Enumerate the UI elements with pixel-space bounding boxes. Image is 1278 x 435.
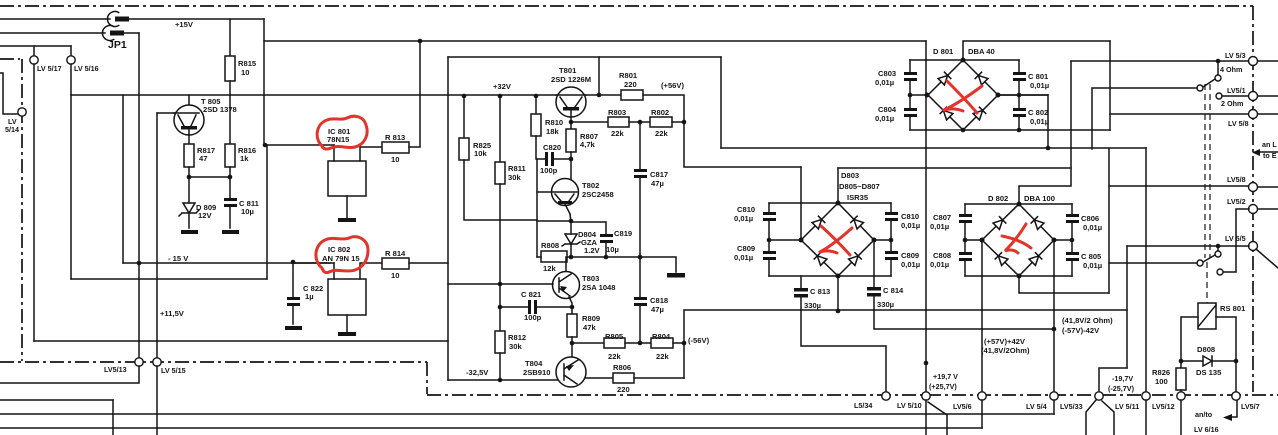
wire right mid to right corner <box>1054 239 1072 241</box>
junction D808 right <box>1234 359 1239 364</box>
wire R814 out to amp box edge <box>409 262 448 264</box>
svg-text:RS 801: RS 801 <box>1220 304 1246 313</box>
node LV5/33 <box>1095 392 1103 400</box>
junction D803 top corner <box>836 201 841 206</box>
wire R802 out to +56V column <box>672 121 684 123</box>
wire C820 right plate to emitter column <box>554 158 571 160</box>
wire R805 to R804 <box>625 342 651 344</box>
svg-text:DS 135: DS 135 <box>1196 368 1222 377</box>
node LV5/12 <box>1177 392 1185 400</box>
diode D803 bottom-right <box>849 253 862 266</box>
switch S1 4Ohm contact stub <box>1217 61 1219 75</box>
mechanical linkage dashed pair <box>1204 84 1206 258</box>
node LV5/8 lower <box>1249 183 1258 192</box>
junction C817 bottom <box>638 255 643 260</box>
svg-text:C806: C806 <box>1081 214 1099 223</box>
wire LV5/17 down long vertical to y341 <box>33 64 35 341</box>
svg-text:ISR35: ISR35 <box>847 193 869 202</box>
svg-text:C809: C809 <box>737 244 755 253</box>
wire +V line y41 from x264 to x926 <box>264 40 926 42</box>
capacitor C801 <box>1018 60 1020 72</box>
junction D802 top corner <box>1017 202 1022 207</box>
wire y221 from R825 column joint <box>537 220 571 222</box>
svg-text:LV 5/5: LV 5/5 <box>1225 234 1246 243</box>
svg-text:(-25,7V): (-25,7V) <box>1108 384 1135 393</box>
svg-text:10: 10 <box>391 271 399 280</box>
wire R808 right to ground corner y257 <box>567 257 676 272</box>
wire +56V column down and right to D803 AC corner <box>684 122 801 167</box>
svg-text:2SC2458: 2SC2458 <box>582 190 614 199</box>
wire switch S2 pivot to x1109 riser <box>1109 262 1197 264</box>
wire IC802 input line under label <box>293 262 334 264</box>
diode D803 top-right <box>851 216 864 229</box>
svg-text:2SD 1378: 2SD 1378 <box>203 105 237 114</box>
wire +15V corner down x264 to IC801 input <box>263 19 265 145</box>
wire IC802 legs <box>334 263 382 279</box>
wire y341 from LV5/17 vertical to amp box edge <box>34 340 448 342</box>
ground bar amp <box>667 273 685 278</box>
chain border bottom-left horizontal <box>0 361 427 363</box>
wire R811 bottom down to R812 <box>499 184 501 331</box>
wire LV5/11 feeder from y148 rail <box>1145 148 1147 392</box>
wire IC801 legs <box>334 145 382 161</box>
wire riser x1109 from y149 to y293 <box>1108 149 1110 293</box>
svg-text:1k: 1k <box>240 154 249 163</box>
svg-text:LV 5/15: LV 5/15 <box>161 366 186 375</box>
zener diode D804 <box>562 234 580 257</box>
wire +11,5V vertical x157 from T805 base to LV5/15 <box>156 113 158 357</box>
svg-text:0,01µ: 0,01µ <box>875 78 894 87</box>
resistor R817 <box>184 144 194 167</box>
wire D808 line <box>1181 360 1236 362</box>
svg-text:+15V: +15V <box>175 20 194 29</box>
node LV5/1 <box>1249 92 1258 101</box>
switch S2 stub <box>1217 246 1219 251</box>
regulator IC801 body <box>328 161 366 196</box>
svg-text:D 802: D 802 <box>988 194 1008 203</box>
diode D801 bottom-left <box>940 107 953 120</box>
junction +56V column <box>682 120 687 125</box>
wire R806 out up to -56V node <box>634 377 684 379</box>
wire R808 left end up base column <box>537 256 541 258</box>
jumper JP1 upper bar <box>115 17 129 22</box>
svg-text:LV5/33: LV5/33 <box>1060 402 1083 411</box>
wire left edge stub into LV5/14 <box>0 73 17 114</box>
node LV5/5 <box>1249 242 1258 251</box>
junction T801 emitter node <box>569 120 574 125</box>
resistor R807 <box>566 129 576 152</box>
chain border bottom jog <box>426 362 428 394</box>
wire R804 out to -56V node <box>673 342 684 344</box>
wire LV5/11 tap down <box>1145 400 1147 435</box>
wire D803 bottom corner down to -56V bus <box>837 276 839 311</box>
svg-text:22k: 22k <box>656 352 669 361</box>
wire collector node to R805 <box>572 342 604 344</box>
svg-text:C 801: C 801 <box>1028 72 1049 81</box>
wire emitter node to R803 <box>571 121 608 123</box>
svg-text:R 814: R 814 <box>385 249 406 258</box>
wire +15V from JP1 upper to corner x264 <box>129 18 264 20</box>
wire LV5/12 tap down <box>1180 400 1182 435</box>
wire D803 AC feed x801 down to left corner <box>800 167 802 240</box>
svg-text:330µ: 330µ <box>804 301 821 310</box>
wire +32V rail y95 from LV5/16 to T801 base <box>71 94 556 96</box>
svg-text:10: 10 <box>391 155 399 164</box>
wire +15V from left edge to JP1 upper <box>0 18 110 20</box>
node L5/34 <box>882 392 890 400</box>
chain border left horizontal stub <box>0 58 20 60</box>
svg-text:- 15 V: - 15 V <box>168 254 189 263</box>
svg-text:R808: R808 <box>541 241 559 250</box>
resistor R806 <box>613 373 634 383</box>
red X on D803 <box>821 226 850 255</box>
svg-text:78N15: 78N15 <box>327 135 350 144</box>
svg-text:(-56V): (-56V) <box>688 336 710 345</box>
svg-text:LV 5/16: LV 5/16 <box>74 64 99 73</box>
svg-text:30k: 30k <box>508 173 521 182</box>
red annotation circle around IC802 <box>316 237 368 273</box>
svg-text:(41,8V/2Ohm): (41,8V/2Ohm) <box>981 346 1030 355</box>
wire C813 bottom via x801 to node L5/34 <box>801 297 886 392</box>
svg-text:(41,8V/2 Ohm): (41,8V/2 Ohm) <box>1062 316 1113 325</box>
node LV5/17 <box>30 56 38 64</box>
switch S2 contact <box>1215 251 1221 257</box>
wire left mid to left corner <box>965 239 982 241</box>
transistor T801 <box>556 87 586 117</box>
svg-text:C810: C810 <box>737 205 755 214</box>
wire regulator loop bottom y279 <box>71 278 267 280</box>
svg-text:C 821: C 821 <box>521 290 542 299</box>
junction base/R811 column <box>498 282 503 287</box>
svg-text:an/to: an/to <box>1195 410 1213 419</box>
svg-text:R826: R826 <box>1152 368 1170 377</box>
node LV5/10 <box>922 392 930 400</box>
svg-text:C819: C819 <box>614 229 632 238</box>
junction D803 right corner <box>872 238 877 243</box>
junction at R817 bottom <box>187 175 192 180</box>
junction T802 emitter/y220 <box>569 219 574 224</box>
resistor R825 <box>463 96 465 138</box>
wire LV5/33 diagonal taps <box>1086 400 1096 435</box>
wire LV5/10 diagonal tap <box>928 402 947 435</box>
wire LV5/1 to edge <box>1258 95 1278 97</box>
svg-text:2SB910: 2SB910 <box>523 368 550 377</box>
resistor R814 <box>382 258 409 269</box>
wire R813 out to vertical x420 up to +V line y41 <box>409 41 420 147</box>
wire JP1 lower to vertical x139 <box>124 32 139 34</box>
wire regulator loop right x267 up to IC801 input junction <box>266 145 268 279</box>
svg-text:4,7k: 4,7k <box>580 140 596 149</box>
wire amp box left edge x448 <box>447 57 449 380</box>
svg-text:LV 5/4: LV 5/4 <box>1026 402 1047 411</box>
resistor R804 <box>651 338 673 348</box>
svg-text:1µ: 1µ <box>305 292 314 301</box>
svg-text:R805: R805 <box>605 332 624 341</box>
resistor R805 <box>604 338 625 348</box>
svg-text:AN 79N 15: AN 79N 15 <box>322 254 360 263</box>
svg-text:D805~D807: D805~D807 <box>839 182 880 191</box>
wire R803 to R802 <box>629 121 650 123</box>
junction D802 bottom corner <box>1017 274 1022 279</box>
svg-text:2SA 1048: 2SA 1048 <box>582 283 616 292</box>
wire D802 right corner down to node LV5/4 <box>1053 240 1055 392</box>
svg-text:22k: 22k <box>608 352 621 361</box>
svg-text:LV 5/3: LV 5/3 <box>1225 51 1246 60</box>
resistor R803 <box>608 117 629 127</box>
svg-text:22k: 22k <box>655 129 668 138</box>
wire D803 bottom rail y276 <box>769 275 891 277</box>
transistor T803 <box>553 272 580 299</box>
switch S1 blade <box>1203 79 1215 87</box>
junction D801 top corner <box>961 58 966 63</box>
svg-text:30k: 30k <box>509 342 522 351</box>
wire emitter node down to D804 <box>570 221 572 234</box>
transistor T805 collector stub <box>188 95 190 105</box>
capacitor C814 top lead from right corner <box>873 240 875 287</box>
capacitor C811 <box>224 198 237 201</box>
svg-text:T803: T803 <box>582 274 599 283</box>
bridge rectifier D802 DBA100 diamond <box>982 204 1054 276</box>
svg-text:D803: D803 <box>841 171 859 180</box>
wire C811 stem <box>229 177 231 198</box>
mechanical linkage to relay <box>1206 262 1208 303</box>
ground bar under D809 <box>181 230 198 234</box>
junction R825 top <box>462 94 467 99</box>
diode D803 top-left <box>812 216 825 229</box>
junction bridge left corner <box>925 93 930 98</box>
wire D801 feed: +V corner down x927 continuing to node LV5/10 <box>925 41 927 392</box>
svg-text:47k: 47k <box>583 323 596 332</box>
node LV5/13 <box>135 358 143 366</box>
resistor R812 <box>495 331 505 353</box>
junction D803 left corner <box>799 238 804 243</box>
resistor R809 <box>567 314 577 337</box>
wire LV5/17 stub <box>33 46 35 56</box>
capacitor C814 <box>867 287 881 291</box>
wire LV5/16 down to y95 rail <box>70 64 72 95</box>
wire -32,5V rail <box>448 379 557 381</box>
svg-text:DBA 40: DBA 40 <box>968 47 995 56</box>
svg-text:0,01µ: 0,01µ <box>875 114 894 123</box>
junction -56V node <box>682 341 687 346</box>
svg-text:R804: R804 <box>652 332 671 341</box>
switch S2 upper contact <box>1217 269 1223 275</box>
junction R812 bottom <box>498 378 503 383</box>
svg-text:LV5/13: LV5/13 <box>104 365 127 374</box>
wire C801/C802 mid to right corner <box>998 94 1048 96</box>
transistor T802 <box>552 179 579 206</box>
wire LV5/8 upper to edge <box>1258 113 1278 115</box>
bridge rectifier D801 DBA40 diamond <box>928 60 998 130</box>
capacitor C808 <box>964 240 966 252</box>
wire D801 top corner stub and +42V line east segment <box>963 41 1110 60</box>
wire R815 top to +15V line <box>229 19 231 56</box>
wire lower jumper feed from left edge <box>0 32 105 34</box>
svg-text:LV5/2: LV5/2 <box>1227 197 1246 206</box>
svg-text:LV 5/11: LV 5/11 <box>1115 402 1139 411</box>
svg-text:22k: 22k <box>611 129 624 138</box>
junction T804 collector node <box>570 341 575 346</box>
svg-text:C807: C807 <box>933 213 951 222</box>
diode D802 top-right <box>1031 217 1044 230</box>
wire LV5/16 drop <box>70 46 72 56</box>
wire R809 bottom to T804 collector node <box>571 337 573 357</box>
ground IC801 stem <box>346 196 348 218</box>
svg-text:D808: D808 <box>1197 345 1215 354</box>
svg-text:C810: C810 <box>901 212 919 221</box>
svg-text:C 813: C 813 <box>810 287 830 296</box>
ground bar under C822 <box>285 326 302 330</box>
svg-text:+19,7 V: +19,7 V <box>933 372 958 381</box>
svg-text:10k: 10k <box>474 149 487 158</box>
junction switch S2 tap <box>1216 244 1221 249</box>
ground bar under C811 <box>222 230 239 234</box>
capacitor C803 <box>904 72 917 75</box>
wire base column x537 down from R810 joint to R808 <box>536 159 538 257</box>
svg-text:R 813: R 813 <box>385 133 405 142</box>
wire D802 left corner down to node LV5/6 <box>981 240 983 392</box>
junction D803 bottom on bus <box>836 309 841 314</box>
svg-text:C808: C808 <box>933 251 951 260</box>
svg-text:C820: C820 <box>543 143 561 152</box>
wire +56V east segment y168 to x1071 <box>838 167 1071 169</box>
wire D809 stem <box>188 177 190 203</box>
jumper JP1 lower contact arc <box>102 25 113 40</box>
wire R816 top from y95 rail <box>229 95 231 144</box>
svg-text:(+56V): (+56V) <box>661 81 684 90</box>
capacitor C810 right <box>890 203 892 212</box>
chain border right vertical <box>1252 6 1254 392</box>
svg-text:47: 47 <box>199 154 207 163</box>
regulator IC802 body <box>328 279 366 315</box>
capacitor C804 <box>909 95 911 108</box>
node LV5/14 <box>18 108 26 116</box>
wire LV5/5 left to x1127 riser <box>1127 245 1249 247</box>
svg-text:LV 5/8: LV 5/8 <box>1228 119 1249 128</box>
junction x420 on y41 line <box>418 39 423 44</box>
junction R803/R802/C817 <box>638 120 643 125</box>
wire -15V line y263 <box>123 262 330 264</box>
junction C821 left on R811 column <box>498 305 503 310</box>
svg-text:R811: R811 <box>508 164 527 173</box>
svg-text:DBA 100: DBA 100 <box>1024 194 1055 203</box>
junction -15V at x139 <box>137 261 142 266</box>
svg-text:100p: 100p <box>540 166 558 175</box>
junction C821 right at emitter column <box>570 305 575 310</box>
switch contact LV5/1 <box>1216 93 1222 99</box>
junction 4Ohm tap <box>1216 59 1221 64</box>
junction C803/C804 <box>908 93 913 98</box>
capacitor C806 <box>1071 204 1073 214</box>
switch S2 blade <box>1203 255 1215 262</box>
wire relay right leg <box>1216 317 1236 361</box>
chain border left vertical through LV5/14 <box>21 59 23 361</box>
switch S1 contact <box>1215 75 1221 81</box>
junction D802 right corner <box>1052 238 1057 243</box>
wire T801 collector right to R801 <box>585 94 621 96</box>
wire D801 left AC wire <box>910 94 928 96</box>
junction R810 top <box>534 94 539 99</box>
wire D803 left cap rail y203 <box>769 202 891 204</box>
svg-text:LV5/1: LV5/1 <box>1227 86 1246 95</box>
junction D804 bottom <box>569 255 574 260</box>
capacitor C813 top lead <box>800 276 802 288</box>
jumper JP1 upper contact arc <box>107 11 118 26</box>
svg-text:18k: 18k <box>546 127 559 136</box>
junction C802 bottom <box>1017 128 1022 133</box>
capacitor C818 column <box>639 257 641 297</box>
node LV5/11 <box>1142 392 1150 400</box>
wire LV5/2 to switch S2 upper contact <box>1223 209 1249 272</box>
svg-text:(+25,7V): (+25,7V) <box>929 382 957 391</box>
wire LV5/8 lower to edge <box>1258 186 1278 188</box>
wire -56V node down to R806 line <box>683 343 685 378</box>
svg-text:-19,7V: -19,7V <box>1112 374 1133 383</box>
wire LV5/15 down off bottom <box>156 366 158 435</box>
wire LV5/8 lower from riser <box>1109 185 1249 187</box>
transistor T804 <box>556 357 586 387</box>
wire T804 emitter to R806 <box>586 377 613 379</box>
wire LV5/1 <box>1222 95 1249 97</box>
node LV5/3 <box>1249 57 1258 66</box>
wire C814 bottom to y329 wire to LV5/4 column <box>874 296 1054 329</box>
capacitor C810 left <box>768 203 770 212</box>
svg-text:C809: C809 <box>901 251 919 260</box>
capacitor C805 <box>1071 240 1073 252</box>
svg-text:0,01µ: 0,01µ <box>1083 261 1102 270</box>
junction at R816 bottom <box>228 175 233 180</box>
capacitor C820 <box>545 152 548 166</box>
wire vertical x1110 from +42V line down to y130 <box>1109 41 1111 130</box>
capacitor C817 column <box>639 122 641 169</box>
svg-text:R806: R806 <box>613 363 631 372</box>
capacitor C802 <box>1018 95 1020 108</box>
transistor T805 <box>174 105 204 135</box>
capacitor C809 left <box>768 240 770 251</box>
svg-text:T804: T804 <box>525 359 543 368</box>
wire T801 collector up to box top <box>598 57 600 95</box>
wire bottom-left x113 down <box>112 400 114 435</box>
svg-text:0,01µ: 0,01µ <box>901 260 920 269</box>
node LV5/6 <box>978 392 986 400</box>
svg-text:0,01µ: 0,01µ <box>1083 223 1102 232</box>
svg-text:LV 5/10: LV 5/10 <box>897 401 922 410</box>
capacitor C809 right <box>890 240 892 251</box>
resistor R808 <box>541 251 567 262</box>
node LV5/7 <box>1232 392 1240 400</box>
svg-text:47µ: 47µ <box>651 179 664 188</box>
svg-text:+32V: +32V <box>493 82 512 91</box>
red mark on D802 <box>1005 224 1026 253</box>
wire amp box top y57 <box>448 56 721 58</box>
svg-text:2 Ohm: 2 Ohm <box>1221 99 1243 108</box>
junction D802 left caps mid <box>963 238 968 243</box>
svg-text:LV5/7: LV5/7 <box>1241 402 1260 411</box>
diode D802 bottom-right <box>1029 253 1042 266</box>
svg-text:L5/34: L5/34 <box>854 401 872 410</box>
junction D808 left <box>1179 359 1184 364</box>
wire T802 emitter down to y221 node <box>570 214 571 222</box>
svg-text:LV5/12: LV5/12 <box>1152 402 1175 411</box>
svg-text:0,01µ: 0,01µ <box>734 214 753 223</box>
svg-text:100p: 100p <box>524 313 542 322</box>
svg-text:0,01µ: 0,01µ <box>1030 117 1049 126</box>
wire T803 emitter down <box>569 297 572 314</box>
junction T801 collector/top wire <box>597 93 602 98</box>
svg-text:R809: R809 <box>582 314 600 323</box>
svg-text:0,01µ: 0,01µ <box>901 221 920 230</box>
wire IC801 input line under label <box>267 144 334 146</box>
